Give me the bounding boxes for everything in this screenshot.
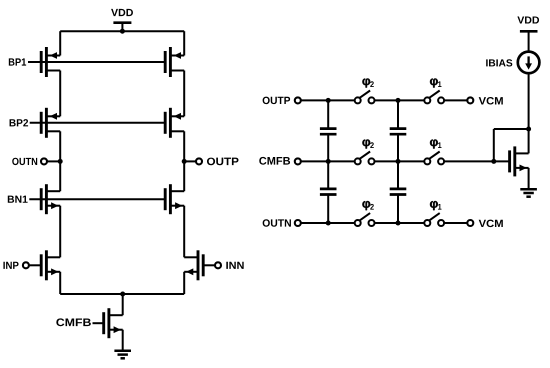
wire CMFB row seg3: [444, 160, 494, 162]
label phi2 S5: [362, 201, 373, 210]
label VCM (top): [479, 97, 503, 105]
label OUTP (left): [207, 158, 239, 166]
capacitor C1: [320, 100, 337, 161]
junction OUTP/C2 dot: [396, 98, 401, 103]
capacitor C3: [320, 161, 337, 223]
label VCM (bottom): [479, 220, 503, 228]
label BN1: [8, 196, 28, 203]
transistor NMOS INN input (mirrored): [184, 250, 203, 280]
wire BP1 gate net: [28, 61, 165, 63]
junction OUTN/C3 dot: [326, 221, 331, 226]
wire VDD rail: [60, 30, 184, 32]
node VCM terminal (top): [467, 97, 473, 103]
power VDD (left circuit): [111, 9, 133, 31]
transistor NMOS BN1 right: [165, 184, 184, 214]
switch S3 phi2 (CMFB row): [355, 152, 375, 165]
label IBIAS: [486, 59, 512, 66]
junction VDD rail dot: [120, 29, 125, 34]
label BP1: [9, 58, 26, 65]
switch S4 phi1 (CMFB row): [424, 152, 444, 165]
label phi2 S1: [362, 78, 373, 87]
wire OUTN row seg2: [375, 222, 425, 224]
transistor NMOS BN1 left: [41, 184, 60, 214]
label phi1 S4: [430, 139, 441, 148]
node OUTN terminal: [41, 158, 63, 164]
wire OUTP row seg3: [444, 99, 467, 101]
junction CMFB/C2 dot: [396, 159, 401, 164]
label OUTP (right): [263, 97, 291, 105]
wire BP2 gate net: [30, 122, 166, 124]
wire bias source to ground: [528, 168, 530, 189]
label INN: [226, 262, 243, 269]
wire BN1 gate net: [29, 198, 165, 200]
wire OUTN row seg1: [301, 222, 355, 224]
transistor PMOS BP1 right: [165, 47, 184, 77]
wire OUTP row seg2: [375, 99, 425, 101]
wire CMFB source to ground: [122, 330, 124, 351]
wire IBIAS to bias drain: [528, 73, 530, 153]
label CMFB (left): [56, 318, 91, 326]
wire left branch drain chain: [59, 31, 61, 294]
node VCM terminal (bottom): [467, 220, 473, 226]
junction drain-gate feedback dot: [526, 127, 531, 132]
label phi2 S3: [362, 139, 373, 148]
junction CMFB/gate dot: [491, 159, 496, 164]
label phi1 S6: [430, 201, 441, 210]
node OUTP terminal: [182, 158, 202, 164]
wire CMFB row seg1: [301, 160, 355, 162]
node INN terminal: [203, 262, 221, 268]
current source IBIAS: [518, 52, 540, 74]
node OUTP terminal (right): [295, 97, 301, 103]
switch S1 phi2 (OUTP row): [355, 91, 375, 104]
ground (left): [114, 351, 131, 359]
power VDD (right circuit): [517, 16, 539, 51]
node CMFB terminal (right): [295, 158, 301, 164]
label INP: [3, 262, 18, 269]
transistor NMOS bias diode: [510, 146, 529, 176]
switch S5 phi2 (OUTN row): [355, 213, 375, 226]
label BP2: [10, 119, 29, 126]
transistor PMOS BP1 left: [41, 47, 60, 77]
label OUTN: [12, 158, 37, 165]
wire tail to CMFB drain: [122, 294, 124, 315]
capacitor C4: [390, 161, 407, 223]
wire CMFB gate lead: [93, 322, 104, 324]
switch S6 phi1 (OUTN row): [424, 213, 444, 226]
capacitor C2: [390, 100, 407, 161]
wire OUTN row seg3: [444, 222, 467, 224]
label OUTN (right): [263, 219, 291, 227]
wire CMFB row seg2: [375, 160, 425, 162]
wire right branch drain chain: [183, 31, 185, 294]
transistor NMOS INP input: [41, 250, 60, 280]
node OUTN terminal (right): [295, 220, 301, 226]
transistor PMOS BP2 right: [165, 108, 184, 138]
switch S2 phi1 (OUTP row): [424, 91, 444, 104]
transistor NMOS CMFB tail: [104, 308, 123, 338]
label phi1 S2: [430, 78, 441, 87]
ground (right): [520, 189, 537, 197]
wire tail node: [60, 293, 184, 295]
junction CMFB/C1 dot: [326, 159, 331, 164]
junction OUTP/C1 dot: [326, 98, 331, 103]
transistor PMOS BP2 left: [41, 108, 60, 138]
node INP terminal: [23, 262, 41, 268]
junction tail node dot: [120, 292, 125, 297]
junction OUTN/C4 dot: [396, 221, 401, 226]
wire OUTP row seg1: [301, 99, 355, 101]
wire gate feedback: [494, 129, 529, 161]
label CMFB (right): [259, 157, 290, 165]
